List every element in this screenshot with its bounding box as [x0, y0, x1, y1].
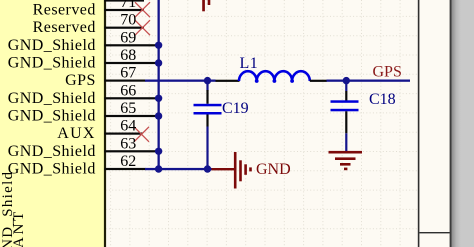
- capacitor C18 top lead: [345, 82, 347, 91]
- svg-text:C18: C18: [369, 91, 396, 108]
- border zone divider: [419, 232, 449, 233]
- pin 68 GND_Shield: [105, 62, 158, 64]
- wire: GPS to net label end: [327, 80, 411, 82]
- pin 62 GND_Shield: [105, 168, 146, 170]
- svg-text:67: 67: [120, 65, 136, 82]
- svg-text:GND_Shield: GND_Shield: [8, 161, 96, 178]
- wire: vertical shield bus: [158, 0, 160, 170]
- junction at C19 bottom: [204, 165, 211, 172]
- no-ERC cross pin 70: [135, 20, 150, 35]
- junction pin 68 / bus: [155, 59, 162, 66]
- svg-text:L1: L1: [240, 55, 259, 72]
- svg-text:70: 70: [120, 12, 136, 29]
- svg-text:64: 64: [120, 118, 136, 135]
- pin 66 GND_Shield: [105, 97, 158, 99]
- junction pin 63 / bus: [155, 148, 162, 155]
- inductor L1 right pin: [310, 80, 327, 82]
- junction pin 62 / bus: [155, 165, 162, 172]
- pin 71 Reserved: [105, 9, 145, 11]
- svg-text:GND_Shield: GND_Shield: [8, 90, 96, 107]
- capacitor C19 top lead: [206, 81, 208, 91]
- svg-text:GND_Shield: GND_Shield: [8, 108, 96, 125]
- clipped ground symbol at top edge: [202, 0, 210, 11]
- pin 69 GND_Shield: [105, 44, 158, 46]
- pin name labels (inside body): [8, 2, 96, 178]
- inductor L1 left pin: [216, 80, 240, 82]
- sheet border frame line: [418, 0, 420, 247]
- junction pin 69 / bus: [155, 42, 162, 49]
- svg-text:C19: C19: [222, 100, 249, 117]
- no-ERC cross pin 71: [135, 2, 150, 17]
- pin 65 GND_Shield: [105, 115, 158, 117]
- sheet edge: [450, 0, 452, 247]
- svg-text:66: 66: [120, 82, 136, 99]
- inductor L1 arcs: [239, 71, 310, 81]
- svg-text:GPS: GPS: [65, 72, 96, 89]
- ground symbol under C18: [329, 151, 363, 170]
- ground symbol right of C19 (rotated, with GND text): [212, 152, 252, 189]
- svg-text:GND_Shield: GND_Shield: [8, 143, 96, 160]
- inductor cusp nodes: [255, 79, 294, 83]
- svg-text:62: 62: [120, 153, 136, 170]
- svg-text:68: 68: [120, 47, 136, 64]
- pin 70 Reserved: [105, 27, 145, 29]
- pin 67 GPS: [105, 80, 146, 82]
- junction pin 65 / bus: [155, 112, 162, 119]
- pin number labels: [120, 0, 136, 170]
- pin 63 GND_Shield: [105, 150, 158, 152]
- svg-text:ANT: ANT: [11, 209, 27, 247]
- grey desktop area right of sheet: [451, 0, 461, 247]
- svg-text:GND_Shield: GND_Shield: [8, 37, 96, 54]
- no-ERC cross pin 64: [134, 127, 149, 142]
- junction at C18: [343, 77, 350, 84]
- svg-text:71: 71: [120, 0, 136, 11]
- capacitor C19 plates: [194, 104, 222, 107]
- capacitor C18 plates: [331, 100, 359, 103]
- capacitor C18 bottom lead: [345, 111, 347, 133]
- svg-text:Reserved: Reserved: [33, 2, 96, 19]
- svg-text:AUX: AUX: [57, 125, 96, 142]
- wire: GPS horizontal: [145, 80, 216, 82]
- svg-text:Reserved: Reserved: [33, 19, 96, 36]
- wire: pin62 to C19/GND: [145, 168, 212, 170]
- svg-text:GND_Shield: GND_Shield: [8, 55, 96, 72]
- svg-text:GPS: GPS: [373, 63, 402, 80]
- junction at C19 top: [204, 77, 211, 84]
- svg-text:63: 63: [120, 135, 136, 152]
- svg-text:65: 65: [120, 100, 136, 117]
- capacitor C19 bottom lead: [206, 115, 208, 127]
- svg-text:69: 69: [120, 29, 136, 46]
- junction pin 66 / bus: [155, 95, 162, 102]
- pin 72 (partial, top edge): [105, 0, 145, 2]
- svg-text:GND: GND: [256, 161, 291, 178]
- pin 64 AUX: [105, 133, 143, 135]
- component body U? (connector): [0, 0, 105, 247]
